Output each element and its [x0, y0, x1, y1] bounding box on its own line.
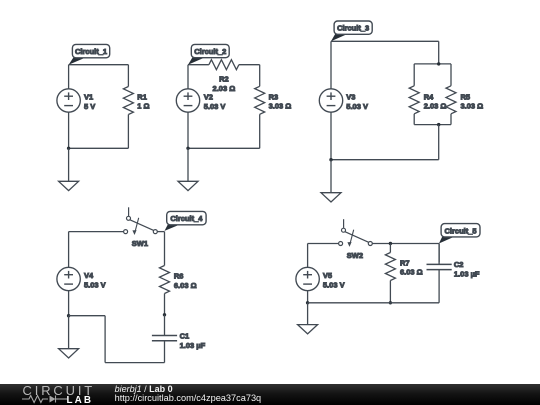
svg-text:V5: V5 — [323, 271, 332, 280]
svg-text:1 Ω: 1 Ω — [137, 102, 149, 111]
svg-text:C2: C2 — [454, 260, 464, 269]
svg-text:5 V: 5 V — [84, 102, 95, 111]
svg-text:SW1: SW1 — [132, 239, 148, 248]
svg-text:R7: R7 — [400, 258, 410, 267]
svg-text:5.03 V: 5.03 V — [346, 102, 368, 111]
svg-text:V4: V4 — [84, 271, 94, 280]
svg-text:V2: V2 — [204, 93, 213, 102]
svg-text:SW2: SW2 — [347, 251, 363, 260]
svg-text:Circuit_2: Circuit_2 — [194, 47, 226, 56]
svg-text:5.03 V: 5.03 V — [204, 102, 226, 111]
svg-text:1.03 µF: 1.03 µF — [454, 269, 480, 278]
svg-text:Circuit_3: Circuit_3 — [337, 24, 369, 33]
svg-text:Circuit_1: Circuit_1 — [75, 47, 107, 56]
svg-text:Circuit_4: Circuit_4 — [170, 214, 203, 223]
svg-text:3.03 Ω: 3.03 Ω — [269, 102, 292, 111]
svg-text:V3: V3 — [346, 93, 355, 102]
svg-text:5.03 V: 5.03 V — [84, 280, 106, 289]
svg-text:1.03 µF: 1.03 µF — [180, 341, 206, 350]
svg-text:6.03 Ω: 6.03 Ω — [174, 281, 197, 290]
svg-text:5.03 V: 5.03 V — [323, 280, 345, 289]
svg-text:V1: V1 — [84, 93, 93, 102]
svg-text:R4: R4 — [424, 92, 434, 101]
svg-text:R5: R5 — [461, 92, 471, 101]
svg-text:R1: R1 — [137, 92, 147, 101]
svg-text:2.03 Ω: 2.03 Ω — [424, 102, 447, 111]
svg-text:Circuit_5: Circuit_5 — [444, 226, 476, 235]
svg-text:R2: R2 — [219, 75, 229, 84]
svg-text:R3: R3 — [269, 92, 279, 101]
svg-text:2.03 Ω: 2.03 Ω — [213, 84, 236, 93]
svg-text:R6: R6 — [174, 272, 184, 281]
svg-text:3.03 Ω: 3.03 Ω — [461, 102, 484, 111]
svg-text:C1: C1 — [180, 332, 190, 341]
svg-text:6.03 Ω: 6.03 Ω — [400, 268, 423, 277]
